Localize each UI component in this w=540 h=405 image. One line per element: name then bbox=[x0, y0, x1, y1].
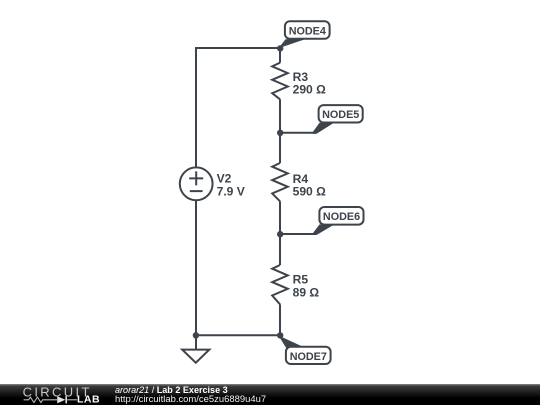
svg-text:590 Ω: 590 Ω bbox=[293, 184, 327, 198]
svg-text:89 Ω: 89 Ω bbox=[293, 285, 320, 299]
svg-text:LAB: LAB bbox=[77, 394, 100, 405]
svg-text:NODE4: NODE4 bbox=[289, 25, 326, 37]
svg-text:V2: V2 bbox=[217, 171, 232, 185]
svg-text:NODE7: NODE7 bbox=[290, 351, 327, 363]
svg-text:290 Ω: 290 Ω bbox=[293, 83, 327, 97]
svg-text:7.9 V: 7.9 V bbox=[217, 184, 245, 198]
svg-text:NODE6: NODE6 bbox=[323, 211, 360, 223]
svg-text:NODE5: NODE5 bbox=[322, 109, 359, 121]
